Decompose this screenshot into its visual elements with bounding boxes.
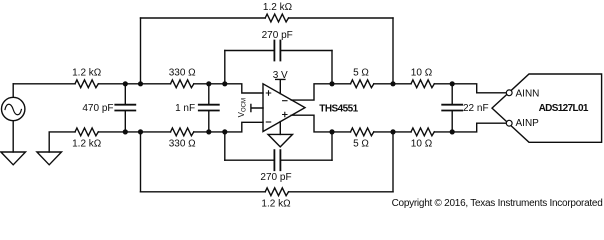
sine wave inside source bbox=[5, 104, 21, 115]
feedback bottom 1.2k loop wire right bbox=[289, 191, 393, 193]
node dot bottom out fb bbox=[390, 129, 395, 134]
feedback bottom 1.2k loop wire left bbox=[141, 191, 266, 193]
op-amp minus sign top-right output bbox=[283, 100, 287, 102]
resistor RF2 1.2 kOhm bottom feedback bbox=[265, 188, 288, 196]
svg-text:470 pF: 470 pF bbox=[82, 103, 113, 114]
feedback bottom 1.2k loop right vertical bbox=[392, 132, 394, 192]
node dot top 1nF bbox=[206, 81, 211, 86]
node dot top out fb bbox=[390, 81, 395, 86]
junction dots bbox=[123, 81, 455, 134]
wire bottom input rail mid bbox=[98, 131, 170, 133]
wire bottom input rail to amp bend bbox=[194, 122, 263, 132]
node dot top out 270pF bbox=[329, 81, 334, 86]
svg-text:22 nF: 22 nF bbox=[463, 103, 489, 114]
ground left of bottom rail bbox=[37, 152, 62, 165]
capacitor CF1 270 pF top plates bbox=[274, 41, 280, 61]
svg-text:1.2 kΩ: 1.2 kΩ bbox=[263, 2, 293, 13]
wire ground stem to bottom rail bbox=[49, 132, 75, 152]
node dot top fb 1.2k bbox=[138, 81, 143, 86]
feedback bottom 270pF loop wire left bbox=[225, 159, 274, 161]
ground under source bbox=[1, 152, 26, 165]
node dot top 470pF bbox=[123, 81, 128, 86]
resistor R3 330 Ohm top bbox=[171, 80, 194, 88]
feedback bottom 270pF loop right vertical bbox=[331, 132, 333, 160]
3V supply bar and stem bbox=[276, 79, 285, 93]
svg-text:5 Ω: 5 Ω bbox=[353, 138, 369, 149]
resistor R8 10 Ohm bottom bbox=[411, 128, 434, 136]
svg-text:5 Ω: 5 Ω bbox=[353, 68, 369, 79]
op-amp plus sign bottom-right output bbox=[283, 112, 287, 116]
feedback top 1.2k loop left vertical bbox=[140, 18, 142, 84]
svg-text:VOCM: VOCM bbox=[237, 98, 248, 117]
wire source top to rail bbox=[12, 84, 14, 98]
feedback bottom 270pF loop left vertical bbox=[224, 132, 226, 160]
resistor R1 1.2 kOhm top input bbox=[75, 80, 98, 88]
feedback top 1.2k loop wire right bbox=[289, 17, 393, 19]
wire amp output bottom to rail bbox=[291, 115, 350, 132]
svg-text:270 pF: 270 pF bbox=[262, 30, 293, 41]
op-amp plus sign top-left input bbox=[266, 91, 270, 95]
svg-text:1 nF: 1 nF bbox=[175, 103, 195, 114]
op-amp U1 THS4551 triangle bbox=[263, 84, 305, 132]
svg-text:AINP: AINP bbox=[516, 118, 540, 129]
resistor R5 5 Ohm top bbox=[351, 80, 374, 88]
resistor R6 5 Ohm bottom bbox=[351, 128, 374, 136]
VOCM terminal bar and stub bbox=[251, 104, 263, 111]
feedback top 270pF loop left vertical bbox=[224, 51, 226, 84]
resistor R4 330 Ohm bottom bbox=[171, 128, 194, 136]
wire top input rail left bbox=[13, 83, 75, 85]
capacitor C3 22 nF stems bbox=[451, 84, 453, 132]
node dot bottom out 22nF bbox=[450, 129, 455, 134]
feedback bottom 270pF loop wire right bbox=[281, 159, 332, 161]
wire top input rail to amp bend bbox=[194, 84, 263, 93]
svg-text:10 Ω: 10 Ω bbox=[411, 138, 433, 149]
capacitor C3 22 nF plates bbox=[442, 105, 462, 111]
wire top output rail to ADC bbox=[434, 84, 506, 93]
svg-text:330 Ω: 330 Ω bbox=[169, 68, 196, 79]
node dot bottom out 270pF bbox=[329, 129, 334, 134]
wire amp output top to rail bbox=[291, 84, 350, 100]
resistor RF1 1.2 kOhm top feedback bbox=[265, 14, 288, 22]
pin circle AINP bbox=[506, 120, 512, 126]
capacitor C2 1 nF stems bbox=[208, 84, 210, 132]
wire top input rail mid bbox=[98, 83, 170, 85]
svg-text:270 pF: 270 pF bbox=[260, 172, 291, 183]
wire bottom output rail to ADC bbox=[434, 123, 506, 132]
svg-text:AINN: AINN bbox=[516, 88, 540, 99]
node dot bottom fb 1.2k bbox=[138, 129, 143, 134]
wire top output rail mid bbox=[374, 83, 411, 85]
feedback top 270pF loop wire left bbox=[225, 50, 274, 52]
svg-text:1.2 kΩ: 1.2 kΩ bbox=[72, 68, 102, 79]
node dot bottom 470pF bbox=[123, 129, 128, 134]
svg-text:1.2 kΩ: 1.2 kΩ bbox=[261, 199, 291, 210]
resistor R2 1.2 kOhm bottom input bbox=[75, 128, 98, 136]
resistor R7 10 Ohm top bbox=[411, 80, 434, 88]
svg-text:ADS127L01: ADS127L01 bbox=[539, 103, 589, 114]
op-amp ground triangle bbox=[268, 134, 293, 147]
feedback bottom 1.2k loop left vertical bbox=[140, 132, 142, 192]
capacitor C1 470 pF plates bbox=[115, 105, 135, 111]
feedback top 1.2k loop wire left bbox=[141, 17, 266, 19]
op-amp minus sign bottom-left input bbox=[266, 121, 270, 123]
svg-text:3 V: 3 V bbox=[273, 70, 288, 81]
feedback top 1.2k loop right vertical bbox=[392, 18, 394, 84]
wire bottom output rail mid bbox=[374, 131, 411, 133]
capacitor C1 470 pF stems bbox=[124, 84, 126, 132]
ADC U2 ADS127L01 outline bbox=[492, 74, 602, 142]
node dot bottom 270pF bbox=[222, 129, 227, 134]
op-amp ground stem bbox=[279, 122, 281, 135]
node dot top out 22nF bbox=[450, 81, 455, 86]
wire source bottom to ground bbox=[12, 121, 14, 152]
voltage source V1 bbox=[2, 97, 25, 120]
pin circle AINN bbox=[506, 90, 512, 96]
feedback top 270pF loop right vertical bbox=[331, 51, 333, 84]
capacitor C2 1 nF plates bbox=[199, 105, 219, 111]
feedback top 270pF loop wire right bbox=[281, 50, 332, 52]
svg-text:Copyright © 2016, Texas Instru: Copyright © 2016, Texas Instruments Inco… bbox=[392, 198, 603, 209]
svg-text:THS4551: THS4551 bbox=[319, 103, 358, 114]
node dot bottom 1nF bbox=[206, 129, 211, 134]
svg-text:330 Ω: 330 Ω bbox=[169, 138, 196, 149]
node dot top 270pF bbox=[222, 81, 227, 86]
svg-text:1.2 kΩ: 1.2 kΩ bbox=[72, 138, 102, 149]
svg-text:10 Ω: 10 Ω bbox=[411, 68, 433, 79]
capacitor CF2 270 pF bottom plates bbox=[274, 150, 280, 170]
